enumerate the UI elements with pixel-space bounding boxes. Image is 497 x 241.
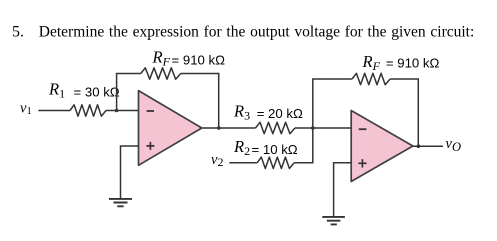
U2 minus sign bbox=[359, 128, 367, 130]
ground (stage 1) bbox=[109, 199, 132, 206]
wire v1 to R1 bbox=[38, 110, 70, 112]
svg-text:= 30 kΩ: = 30 kΩ bbox=[74, 85, 120, 100]
svg-text:v2: v2 bbox=[211, 152, 223, 169]
wire feedback U2: down to output node D bbox=[390, 79, 418, 146]
U2 plus sign bbox=[358, 159, 366, 167]
svg-text:5.: 5. bbox=[12, 23, 24, 40]
resistor R3 bbox=[256, 122, 295, 133]
wire U2 noninverting input to ground bbox=[334, 163, 352, 216]
wire v2 to R2 bbox=[229, 162, 257, 164]
node D (U2 output junction) bbox=[417, 144, 421, 148]
wire feedback U1: down to output node B bbox=[181, 74, 219, 128]
wire R3 to U2 inverting input bbox=[295, 127, 351, 129]
wire R2 up to node C bbox=[294, 128, 313, 163]
wire feedback U1: up from node A bbox=[117, 74, 141, 111]
svg-text:= 20 kΩ: = 20 kΩ bbox=[257, 106, 303, 121]
svg-text:= 910 kΩ: = 910 kΩ bbox=[172, 53, 226, 68]
op-amp U2 bbox=[351, 111, 413, 182]
resistor RF (stage 2) bbox=[352, 73, 390, 84]
op-amp U1 bbox=[139, 91, 202, 166]
node B (U1 output junction) bbox=[217, 126, 221, 130]
U1 minus sign bbox=[147, 110, 154, 112]
svg-text:Determine the expression for t: Determine the expression for the output … bbox=[39, 23, 474, 40]
node A (U1 inverting input junction) bbox=[115, 109, 119, 113]
svg-text:= 910 kΩ: = 910 kΩ bbox=[386, 56, 440, 71]
wire U1 noninverting input to ground bbox=[121, 146, 139, 198]
wire U1 output to R3 bbox=[202, 127, 256, 129]
wire R1 to op-amp U1 inverting input bbox=[106, 110, 139, 112]
U1 plus sign bbox=[146, 142, 154, 150]
node C (summing junction) bbox=[311, 126, 315, 130]
wire U2 output to vO bbox=[413, 145, 443, 147]
svg-text:= 10 kΩ: = 10 kΩ bbox=[252, 142, 298, 157]
wire feedback U2: up from node C bbox=[313, 79, 352, 128]
resistor RF (stage 1) bbox=[141, 68, 181, 79]
resistor R2 bbox=[257, 157, 294, 168]
resistor R1 bbox=[70, 105, 106, 116]
ground (stage 2) bbox=[322, 217, 345, 225]
